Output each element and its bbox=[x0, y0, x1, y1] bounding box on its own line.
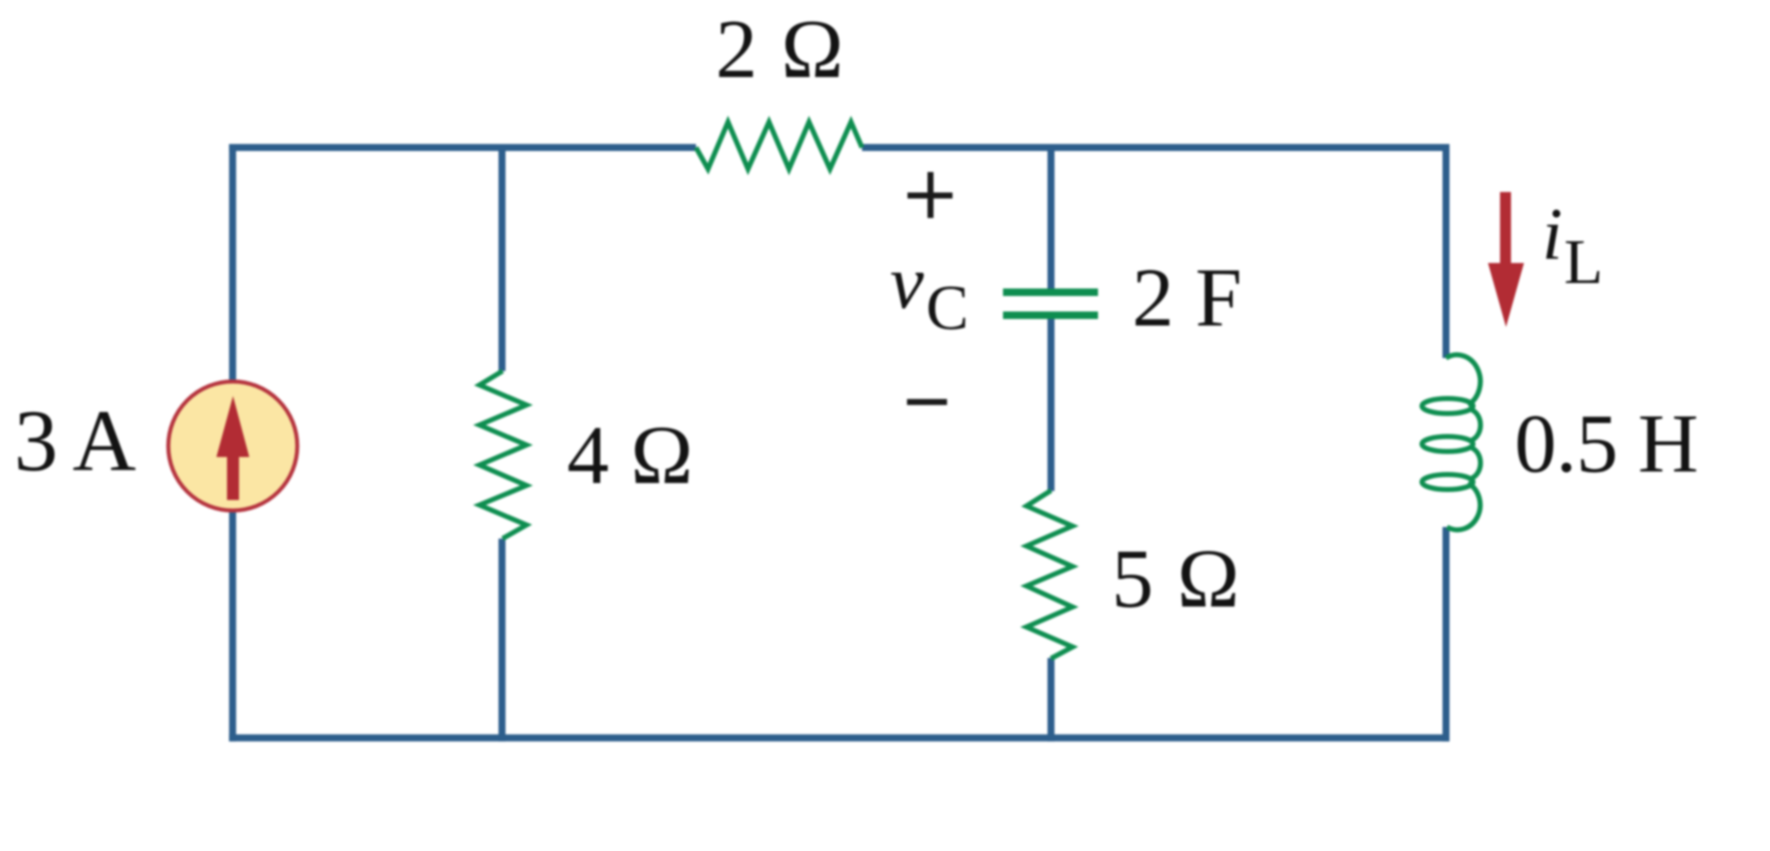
svg-text:i: i bbox=[1542, 194, 1563, 276]
svg-text:2 Ω: 2 Ω bbox=[716, 3, 844, 96]
svg-text:5 Ω: 5 Ω bbox=[1112, 533, 1240, 626]
svg-text:0.5 H: 0.5 H bbox=[1515, 398, 1699, 491]
svg-text:2 F: 2 F bbox=[1132, 252, 1242, 345]
svg-text:L: L bbox=[1564, 226, 1603, 297]
svg-text:C: C bbox=[926, 272, 969, 343]
svg-text:4 Ω: 4 Ω bbox=[567, 409, 693, 502]
svg-text:v: v bbox=[890, 241, 924, 325]
svg-text:3 A: 3 A bbox=[14, 393, 136, 490]
